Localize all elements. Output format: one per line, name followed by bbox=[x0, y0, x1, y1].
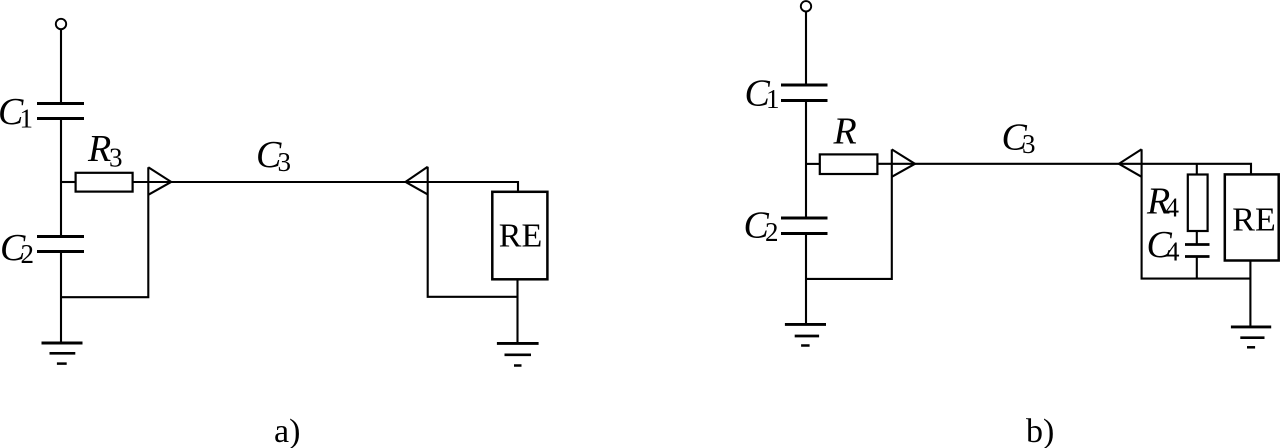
svg-text:3: 3 bbox=[278, 147, 292, 177]
svg-text:a): a) bbox=[274, 413, 300, 448]
svg-text:2: 2 bbox=[21, 239, 35, 269]
svg-text:2: 2 bbox=[765, 217, 779, 247]
svg-text:b): b) bbox=[1026, 413, 1054, 448]
svg-text:RE: RE bbox=[499, 218, 542, 255]
svg-text:3: 3 bbox=[109, 143, 123, 173]
svg-text:3: 3 bbox=[1022, 129, 1036, 159]
svg-text:4: 4 bbox=[1166, 193, 1180, 223]
svg-text:RE: RE bbox=[1232, 202, 1275, 239]
svg-text:1: 1 bbox=[766, 84, 780, 114]
svg-text:1: 1 bbox=[20, 104, 34, 134]
svg-text:4: 4 bbox=[1166, 237, 1180, 267]
svg-text:R: R bbox=[87, 128, 111, 170]
svg-text:R: R bbox=[833, 111, 857, 153]
